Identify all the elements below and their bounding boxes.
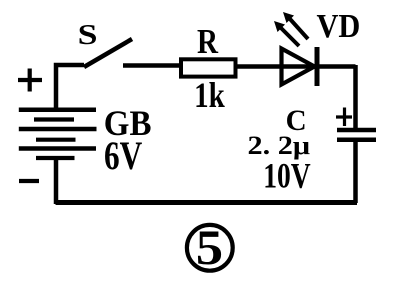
wire: bottom rail	[56, 200, 358, 205]
battery plus sign	[18, 69, 42, 92]
svg-text:R: R	[197, 22, 219, 61]
wire: top-left vertical from switch corner down to battery positive plate	[56, 65, 84, 110]
battery GB plate short 1	[34, 117, 74, 121]
switch S lever	[84, 39, 132, 67]
svg-text:1k: 1k	[194, 76, 225, 116]
svg-text:10V: 10V	[263, 156, 310, 195]
LED light arrow 2	[290, 19, 308, 39]
svg-text:5: 5	[196, 220, 223, 275]
svg-text:6V: 6V	[104, 133, 142, 178]
wire: battery negative to bottom rail	[54, 157, 59, 204]
battery GB plate short 3	[36, 156, 75, 160]
battery GB plate long 1	[19, 108, 96, 113]
LED light arrow 1	[281, 28, 299, 46]
battery minus sign	[19, 179, 39, 183]
svg-text:VD: VD	[317, 6, 361, 44]
capacitor C bottom plate	[337, 138, 376, 143]
wire: switch right terminal to resistor	[123, 63, 181, 68]
wire: capacitor to bottom rail	[353, 140, 358, 203]
wire: top-right corner down to capacitor	[353, 65, 358, 129]
battery GB plate long 2	[19, 127, 97, 132]
LED VD triangle	[282, 49, 315, 85]
figure number circle	[187, 225, 233, 271]
wire: resistor through LED to top-right	[236, 64, 356, 69]
battery GB plate long 3	[19, 146, 96, 151]
battery GB plate short 2	[36, 138, 76, 142]
capacitor plus sign	[336, 108, 352, 127]
resistor R body	[181, 59, 236, 76]
svg-text:S: S	[78, 18, 98, 50]
capacitor C top plate	[337, 128, 376, 133]
LED VD cathode bar	[315, 47, 320, 86]
